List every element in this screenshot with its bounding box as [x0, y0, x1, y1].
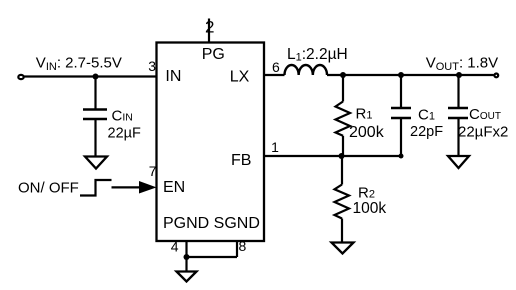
inductor L1: [285, 65, 328, 75]
junction R1 tap: [340, 72, 346, 78]
wire to ground: [185, 257, 187, 272]
svg-text:PGND SGND: PGND SGND: [163, 215, 260, 232]
resistor R2: [335, 185, 350, 219]
svg-text:1: 1: [271, 139, 279, 155]
svg-text:4: 4: [171, 239, 179, 255]
ground CIN: [85, 157, 107, 169]
svg-text:2: 2: [205, 18, 214, 37]
wire CIN bottom: [94, 119, 96, 157]
output terminal: [494, 74, 498, 78]
wire COUT bottom: [457, 118, 459, 156]
junction C1 bottom: [399, 154, 404, 159]
svg-text:ON/ OFF: ON/ OFF: [18, 180, 79, 197]
node VOUT wire: [327, 74, 494, 76]
capacitor C1: [391, 107, 411, 110]
ground PGND: [177, 272, 197, 282]
wire CIN top: [94, 77, 96, 110]
enable arrowhead: [139, 181, 157, 194]
svg-text:3: 3: [148, 58, 156, 74]
ground COUT: [448, 156, 469, 168]
node FB wire: [264, 155, 401, 157]
node LX wire: [264, 74, 285, 76]
enable step waveform: [80, 180, 112, 196]
input terminal: [18, 75, 23, 79]
junction CIN tap: [93, 74, 99, 80]
svg-text:200k: 200k: [349, 124, 385, 141]
node VIN wire: [24, 75, 157, 77]
wire R1 bottom: [342, 136, 344, 156]
svg-text:22pF: 22pF: [410, 124, 443, 140]
junction C1 tap: [398, 72, 404, 78]
svg-text:22µFx2: 22µFx2: [458, 124, 508, 141]
wire R2 bottom: [341, 219, 343, 243]
pin 4 stub (PGND): [185, 241, 187, 257]
svg-text:EN: EN: [163, 179, 185, 196]
wire PGND-SGND tie: [187, 256, 238, 258]
svg-text:LX: LX: [230, 69, 250, 86]
svg-text:8: 8: [239, 238, 247, 254]
ground R2: [332, 243, 354, 254]
junction FB/R1/R2: [339, 153, 345, 159]
pin 2 stub (PG): [208, 19, 210, 43]
pin 8 stub (SGND): [236, 241, 238, 257]
svg-text:IN: IN: [165, 68, 181, 85]
wire R1 top: [342, 75, 344, 102]
enable arrow wire: [112, 186, 142, 188]
IC U1 body: [157, 43, 265, 242]
svg-text:6: 6: [272, 59, 280, 75]
svg-text:FB: FB: [231, 152, 251, 169]
wire C1 top: [400, 75, 402, 108]
junction COUT tap: [456, 72, 462, 78]
svg-text:22µF: 22µF: [108, 126, 141, 142]
junction PGND: [184, 254, 190, 260]
svg-text:100k: 100k: [353, 200, 387, 217]
wire C1 bottom: [400, 118, 402, 156]
svg-text:7: 7: [149, 163, 157, 179]
capacitor COUT: [448, 107, 468, 110]
wire R2 top: [341, 156, 343, 185]
svg-text:PG: PG: [202, 46, 225, 63]
resistor R1: [336, 102, 351, 136]
capacitor CIN: [83, 108, 107, 111]
wire COUT top: [457, 75, 459, 108]
